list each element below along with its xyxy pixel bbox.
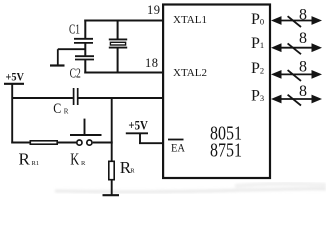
svg-text:R: R — [19, 150, 31, 169]
svg-text:19: 19 — [147, 3, 160, 17]
svg-text:C: C — [53, 101, 61, 117]
svg-text:R: R — [130, 168, 135, 175]
svg-text:R: R — [64, 107, 69, 115]
svg-text:8: 8 — [299, 7, 307, 24]
svg-text:K: K — [70, 150, 80, 169]
svg-text:C2: C2 — [70, 66, 81, 81]
svg-text:+5V: +5V — [128, 118, 148, 132]
svg-text:8751: 8751 — [210, 139, 242, 161]
svg-text:8: 8 — [299, 58, 307, 75]
svg-text:+5V: +5V — [6, 70, 25, 84]
svg-text:C1: C1 — [69, 23, 80, 38]
svg-text:18: 18 — [145, 56, 158, 70]
svg-text:P3: P3 — [251, 88, 264, 105]
svg-text:R1: R1 — [32, 160, 40, 167]
svg-text:P2: P2 — [251, 60, 264, 77]
svg-text:8: 8 — [299, 83, 307, 100]
svg-text:XTAL2: XTAL2 — [173, 68, 207, 79]
svg-text:P0: P0 — [251, 11, 264, 28]
svg-text:8: 8 — [299, 30, 307, 47]
svg-text:EA: EA — [171, 143, 186, 155]
svg-text:XTAL1: XTAL1 — [173, 15, 207, 26]
svg-text:R: R — [81, 160, 86, 167]
svg-text:P1: P1 — [251, 35, 264, 52]
